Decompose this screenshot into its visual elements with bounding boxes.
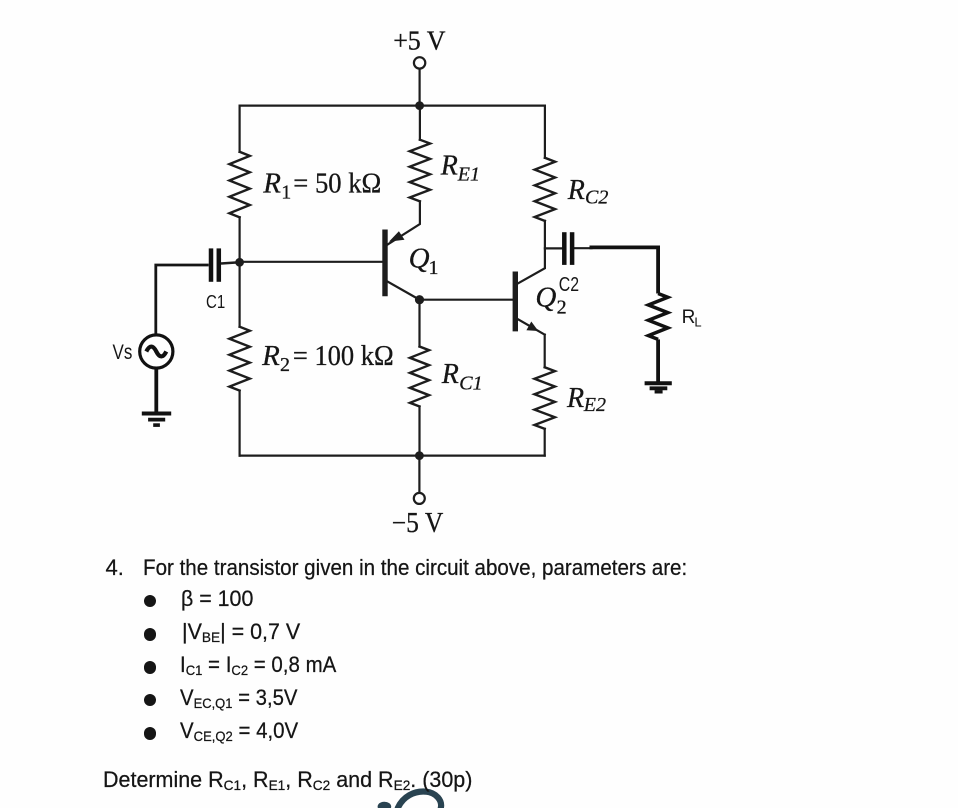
svg-text:C2: C2	[559, 274, 579, 296]
resistor RE1	[410, 140, 430, 202]
svg-text:C1: C1	[206, 292, 225, 312]
resistor RC2	[535, 158, 555, 221]
wire Q2 emitter to RE2	[544, 335, 546, 368]
svg-text:2: 2	[557, 297, 567, 319]
svg-text:−5 V: −5 V	[392, 508, 444, 539]
wire RC1 bottom to bottom rail node	[418, 407, 420, 456]
wire RE1 to Q1 emitter	[386, 201, 420, 245]
node A dot: C1 / R1 / R2 / Q1 base	[235, 258, 244, 267]
svg-text:R: R	[567, 175, 585, 206]
wire left rail to R1 top	[239, 106, 241, 152]
svg-text:E2: E2	[583, 394, 606, 416]
resistor R2	[229, 327, 249, 391]
transistor Q2 emitter arrow	[526, 322, 538, 332]
transistor Q1 (PNP) base bar	[382, 230, 387, 297]
svg-text:= 100 kΩ: = 100 kΩ	[293, 340, 394, 372]
svg-text:= 50 kΩ: = 50 kΩ	[293, 167, 381, 199]
wire node B down to RC1	[418, 300, 420, 347]
svg-text:R: R	[262, 167, 281, 199]
svg-text:+5 V: +5 V	[393, 25, 446, 55]
top rail wire	[240, 104, 545, 106]
wire Q2 emitter diagonal	[515, 318, 545, 335]
svg-text:C2: C2	[585, 187, 608, 209]
resistor RE2	[535, 367, 555, 429]
wire RE2 bottom to bottom rail	[544, 429, 546, 456]
ground (Vs)	[142, 414, 171, 426]
svg-text:L: L	[694, 315, 701, 330]
svg-text:Q: Q	[535, 282, 556, 314]
wire RL to ground	[656, 339, 660, 382]
source Vs circle	[140, 335, 173, 368]
ground (RL)	[645, 383, 672, 392]
svg-text:1: 1	[429, 257, 439, 279]
capacitor C2 plates	[564, 232, 572, 265]
source Vs sine wave	[146, 347, 166, 357]
capacitor C1 plates	[211, 248, 219, 281]
resistor RL	[648, 294, 667, 340]
wire Q1 collector diagonal	[386, 281, 419, 300]
wire C2 right thin lead	[575, 247, 592, 249]
wire C1 right lead	[221, 263, 236, 264]
wire top rail to RE1	[419, 106, 421, 140]
wire R2 bottom to bottom rail	[239, 391, 241, 456]
svg-text:R: R	[440, 151, 458, 182]
-5V supply terminal	[414, 493, 425, 504]
svg-text:Vs: Vs	[113, 341, 133, 364]
wire node B to Q2 base	[420, 299, 514, 301]
svg-text:R: R	[566, 383, 584, 414]
svg-text:R: R	[261, 340, 280, 372]
wire node A to R2 top	[239, 262, 241, 327]
svg-text:E1: E1	[457, 164, 480, 186]
transistor Q2 (NPN) base bar	[513, 272, 518, 332]
wire C1 left lead and Vs drop	[156, 265, 209, 335]
svg-text:R: R	[441, 359, 459, 390]
node dot: top rail / RE1	[415, 101, 424, 110]
resistor RC1	[410, 347, 429, 407]
handwritten pen mark curve	[398, 792, 441, 808]
wire top rail right corner down to RC2	[544, 106, 546, 158]
wire C2 to RL (thick)	[590, 247, 659, 293]
wire RC2 bottom through C2 tap to Q2 collector diagonal	[516, 221, 545, 284]
svg-text:1: 1	[281, 182, 291, 204]
wire +5V terminal to top rail	[419, 69, 421, 106]
+5V supply terminal	[414, 57, 425, 68]
node B dot: Q1 collector / Q2 base / RC1	[415, 295, 424, 304]
svg-text:R: R	[682, 307, 696, 328]
svg-text:Q: Q	[409, 243, 430, 275]
wire Vs to ground	[154, 368, 158, 413]
transistor Q1 emitter arrow	[389, 231, 405, 241]
bottom rail wire	[240, 455, 545, 457]
wire C2 tap stub	[545, 247, 562, 249]
svg-text:2: 2	[280, 354, 290, 376]
svg-text:C1: C1	[459, 373, 482, 395]
wire bottom node to -5V terminal	[418, 456, 420, 493]
node dot: bottom rail / -5V	[415, 451, 424, 460]
handwritten pen mark dot	[378, 802, 392, 808]
wire node A to Q1 base	[240, 261, 384, 263]
resistor R1	[229, 152, 249, 218]
wire R1 bottom to node A	[239, 217, 241, 261]
